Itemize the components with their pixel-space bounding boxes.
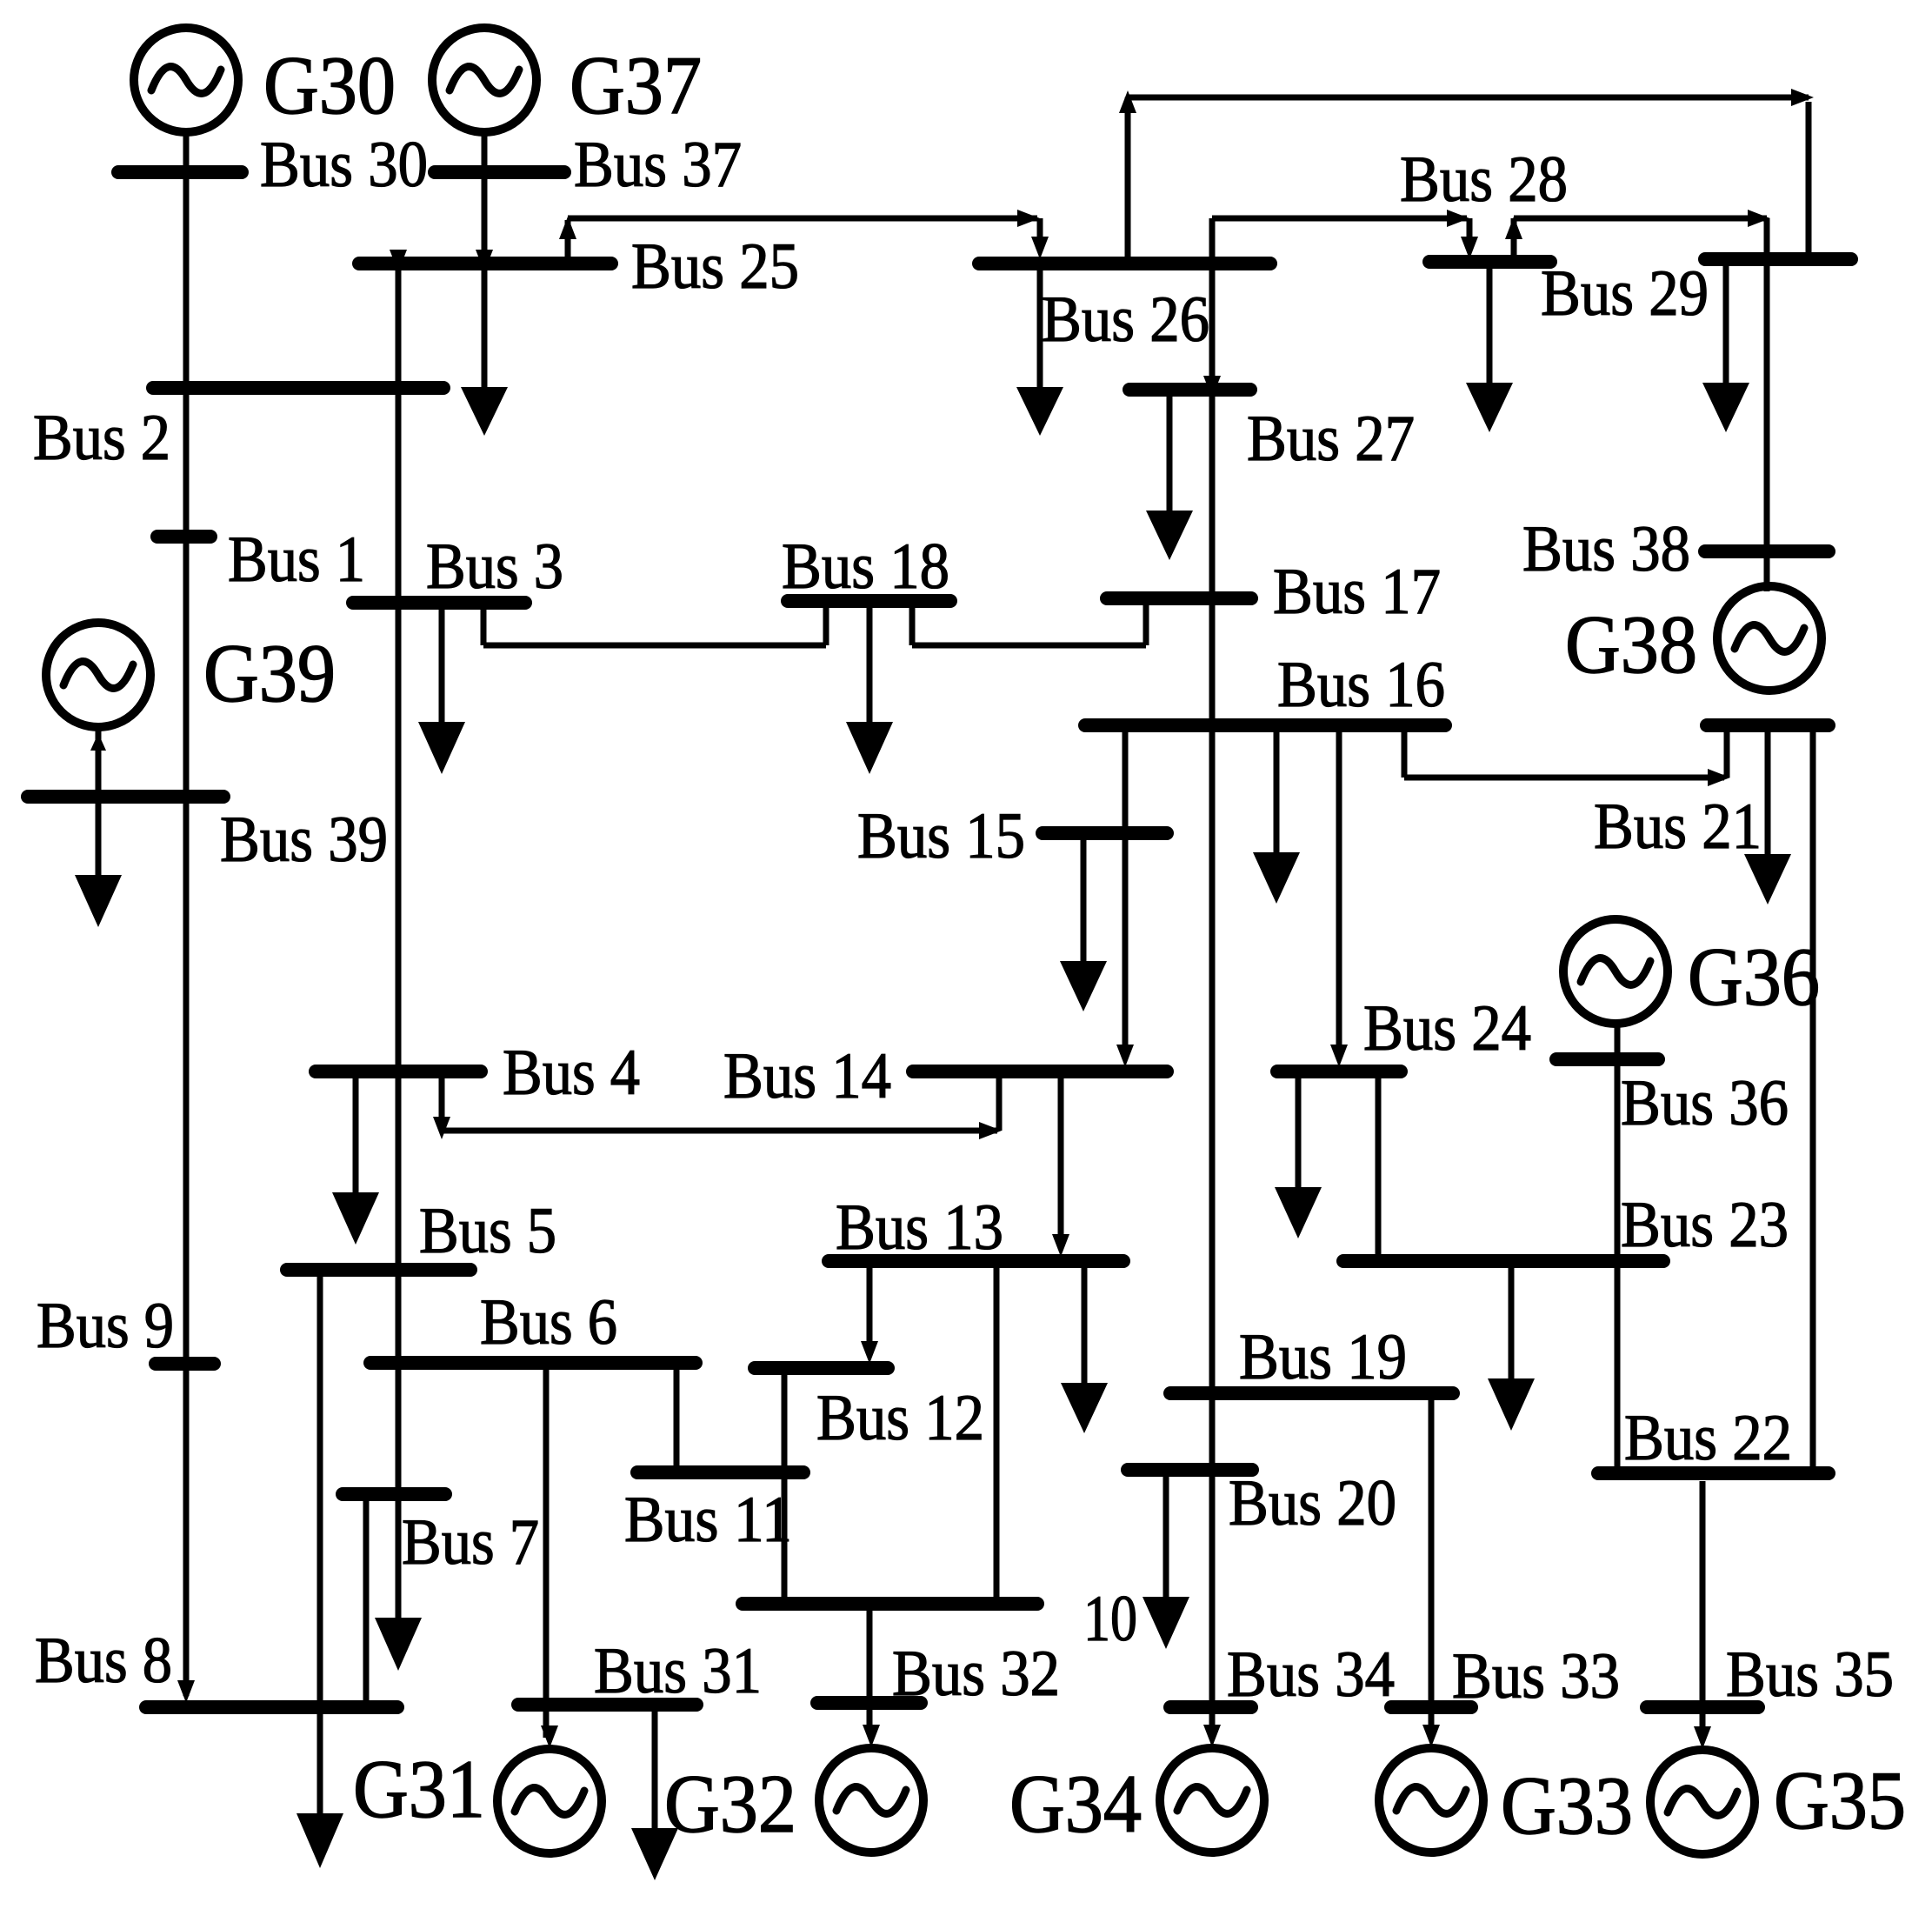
bus bar Bus 2	[153, 381, 443, 395]
bus bar Bus 34	[1170, 1700, 1251, 1714]
bus bar Bus 5	[287, 1263, 470, 1277]
wire G30 to Bus 30 to Bus 2 to Bus 1 to Bus 39 to Bus 9 to Bus 8 (lines 2-30, 1-2, 1-39, 9-39, 8-9)	[183, 134, 190, 1696]
load arrow at Bus 25	[461, 387, 508, 436]
bus bar Bus 11	[637, 1465, 803, 1479]
svg-text:Bus 21: Bus 21	[1594, 791, 1762, 863]
svg-text:G31: G31	[353, 1743, 485, 1835]
svg-text:G36: G36	[1688, 931, 1820, 1023]
bus bar Bus 10	[743, 1597, 1037, 1611]
bus bar Bus 22	[1598, 1466, 1829, 1480]
load arrow at Bus 26	[1016, 270, 1063, 436]
svg-text:G39: G39	[203, 627, 336, 719]
generator G33 symbol	[1379, 1748, 1483, 1852]
svg-text:Bus 37: Bus 37	[574, 129, 742, 201]
bus bar Bus 29	[1705, 252, 1851, 266]
wire Bus 12 to Bus 11 (transformer 12-11)	[782, 1375, 788, 1466]
svg-text:Bus 29: Bus 29	[1541, 257, 1709, 330]
bus bar Bus 21	[1707, 718, 1829, 732]
wire line 25-26 corner down to Bus 28... stub onto Bus 28 bar	[1467, 218, 1473, 242]
svg-text:Bus 32: Bus 32	[892, 1638, 1060, 1710]
wire Bus 10 to Bus 32 to G32 (transformer 10-32)	[867, 1610, 873, 1731]
svg-text:Bus 14: Bus 14	[723, 1040, 891, 1112]
wire Bus 4 corner down to line 4-14	[439, 1078, 445, 1128]
bus bar Bus 27	[1129, 383, 1250, 397]
svg-text:10: 10	[1083, 1583, 1137, 1655]
arrowhead line 16-21 right at Bus 21 bend	[1708, 769, 1730, 786]
wire line 28-29 horizontal	[1514, 216, 1767, 222]
svg-text:Bus 16: Bus 16	[1277, 649, 1445, 721]
generator G30 symbol	[134, 28, 238, 132]
bus bar Bus 8	[146, 1700, 397, 1714]
wire Bus 18 stub up from line 3-18	[823, 607, 829, 645]
wire line 17-18 horizontal	[912, 643, 1146, 649]
bus bar Bus 23	[1343, 1254, 1663, 1268]
arrowhead onto G34 circle top	[1203, 1725, 1221, 1747]
wire line 26-28 horizontal	[1212, 216, 1467, 222]
svg-text:Bus 39: Bus 39	[220, 804, 388, 876]
load arrow at Bus 7	[375, 1618, 422, 1671]
svg-text:G32: G32	[664, 1758, 796, 1850]
wire Bus 21 stub down to line 16-21	[1724, 732, 1730, 778]
load arrow at Bus 39	[75, 803, 122, 927]
wire Bus 6 to Bus 11 (line 6-11)	[674, 1370, 680, 1466]
wire Bus 28 stub up to line 28-29	[1511, 218, 1517, 256]
svg-text:Bus 23: Bus 23	[1621, 1189, 1789, 1261]
load arrow at Bus 20	[1143, 1476, 1189, 1649]
svg-text:Bus 9: Bus 9	[37, 1290, 174, 1362]
generator G34 symbol	[1160, 1748, 1264, 1852]
bus bar Bus 4	[316, 1065, 481, 1078]
generator G37 symbol	[432, 28, 536, 132]
svg-text:Bus 28: Bus 28	[1400, 144, 1568, 216]
load arrow at Bus 8	[296, 1813, 343, 1868]
svg-text:Bus 33: Bus 33	[1452, 1640, 1620, 1712]
arrowhead onto G31 circle top	[541, 1725, 558, 1748]
wire Bus 17 stub up from line 17-18	[1143, 604, 1149, 645]
arrowhead line 25-26 right at end	[1017, 210, 1040, 227]
wire G36 to Bus 36 to Bus 23 to Bus 22 (transformer 23-36, line 22-23)	[1615, 1025, 1621, 1466]
bus bar Bus 16	[1085, 718, 1445, 732]
arrowhead junction line at Bus 27 bar	[1203, 376, 1221, 398]
svg-text:G38: G38	[1565, 598, 1697, 691]
wire line 25-26 horizontal	[568, 216, 1037, 222]
arrowhead line 26-28 right at end	[1447, 210, 1469, 227]
svg-text:Bus 24: Bus 24	[1363, 992, 1531, 1065]
generator G35 symbol	[1650, 1750, 1755, 1854]
bus bar Bus 19	[1170, 1386, 1453, 1400]
wire Bus 16 to Bus 15 (line 15-16)	[1123, 732, 1129, 827]
wire Bus 14 to Bus 13 (line 13-14)	[1058, 1078, 1064, 1239]
bus bar Bus 25	[359, 257, 611, 270]
bus bar Bus 7	[343, 1487, 445, 1501]
load arrow at Bus 16	[1253, 732, 1300, 904]
svg-text:Bus 1: Bus 1	[228, 524, 365, 596]
bus bar Bus 33	[1391, 1700, 1471, 1714]
bus bar Bus 3	[353, 596, 525, 610]
wire Bus 24 to Bus 23 (line 23-24)	[1376, 1078, 1382, 1255]
arrowhead line 15-14 onto Bus 14 bar	[1116, 1045, 1134, 1067]
load arrow at Bus 29	[1702, 266, 1749, 432]
wire G37 to Bus 37 to Bus 25 (transformer 25-37) and Bus 25 load stub	[482, 134, 488, 389]
load arrow at Bus 18	[846, 607, 893, 774]
svg-text:Bus 8: Bus 8	[35, 1625, 172, 1697]
wire Bus 16 stub down to line 16-21	[1402, 732, 1408, 778]
arrowhead junction line at Bus 25 bar	[390, 250, 407, 272]
generator G39 symbol	[46, 623, 150, 727]
svg-text:Bus 35: Bus 35	[1726, 1639, 1894, 1711]
arrowhead line 28-29 right at Bus 29 bend	[1748, 210, 1770, 227]
wire Bus 26 to Bus 27 to Bus 17 to Bus 16 to Bus 19 to Bus 20 (lines 26-27, 17-27, 16-17, 16-19, 19-20)	[1209, 218, 1216, 1464]
arrowhead G37 line at Bus 25 bar	[476, 250, 493, 272]
svg-text:Bus 25: Bus 25	[631, 230, 799, 303]
wire Bus 7 to Bus 8 (line 7-8)	[363, 1501, 370, 1701]
arrowhead line 4-14 right at Bus 14 stub	[979, 1122, 1002, 1139]
svg-text:G30: G30	[263, 39, 396, 131]
generator G38 symbol	[1717, 586, 1822, 691]
load arrow at Bus 4	[332, 1078, 379, 1245]
arrowhead line 2-30 end onto Bus 8 bar	[177, 1680, 195, 1703]
wire line 26-29 corner down to Bus 29	[1806, 102, 1812, 253]
bus bar Bus 6	[370, 1356, 696, 1370]
wire Bus 11 to Bus 10 (line 10-11)	[782, 1478, 788, 1598]
arrowhead line 25-26 up at Bus 25 bend	[559, 217, 576, 239]
wire Bus 22 to Bus 35 to G35 (transformer 22-35)	[1700, 1481, 1706, 1732]
svg-text:Bus 19: Bus 19	[1239, 1321, 1407, 1393]
wire line 25-26 right end down to Bus 26 bar	[1037, 218, 1043, 242]
wire Bus 13 to Bus 10 (line 10-13)	[994, 1267, 1000, 1598]
bus bar Bus 9	[156, 1357, 214, 1371]
bus bar Bus 1	[157, 530, 210, 544]
wire Bus 20 to Bus 34 to G34 (transformer 20-34)	[1209, 1476, 1216, 1731]
svg-text:Bus 27: Bus 27	[1247, 403, 1415, 475]
bus bar Bus 14	[913, 1065, 1167, 1078]
arrowhead line 26-28 onto Bus 28 bar	[1461, 237, 1478, 259]
wire line 4-14 horizontal	[442, 1128, 997, 1134]
load arrow at Bus 21	[1744, 732, 1791, 904]
wire Bus 25 to Bus 2 to Bus 3 to Bus 4 to Bus 5 to Bus 6 to Bus 7 (lines 2-25, 2-3, 3-4, 4-5, 5-6, 6-7) and Bus 7 load stub	[396, 270, 402, 1621]
bus bar Bus 38	[1705, 544, 1829, 558]
load arrow at Bus 27	[1146, 397, 1193, 560]
svg-text:Bus 15: Bus 15	[857, 800, 1025, 872]
wire Bus 15 to Bus 14 (line 14-15)	[1123, 839, 1129, 1050]
bus bar Bus 35	[1647, 1700, 1758, 1714]
svg-text:Bus 5: Bus 5	[419, 1195, 556, 1267]
wire Bus 16 to Bus 24 (line 16-24)	[1336, 732, 1342, 1050]
load arrow at Bus 28	[1466, 269, 1513, 432]
wire G39 to Bus 39	[96, 725, 102, 791]
arrowhead line 13-12 onto Bus 12 bar	[861, 1341, 878, 1364]
bus bar Bus 32	[817, 1696, 921, 1710]
bus bar Bus 12	[755, 1361, 888, 1375]
bus bar Bus 18	[788, 594, 950, 608]
svg-text:G34: G34	[1009, 1758, 1142, 1850]
svg-text:G37: G37	[570, 39, 702, 131]
svg-text:Bus 3: Bus 3	[426, 531, 563, 603]
svg-text:G35: G35	[1774, 1754, 1906, 1846]
wire line 16-21 horizontal	[1404, 775, 1724, 781]
svg-text:Bus 22: Bus 22	[1624, 1402, 1792, 1474]
wire Bus 19 to Bus 33 to G33 (transformer 19-33)	[1429, 1400, 1435, 1731]
wire Bus 3 stub down to line 3-18	[481, 609, 487, 645]
generator G36 symbol	[1563, 919, 1668, 1024]
bus bar Bus 30	[118, 165, 242, 179]
load arrow at Bus 31	[631, 1712, 678, 1880]
arrowhead line 26-29 up at Bus 26 bend	[1119, 90, 1136, 113]
bus bar Bus 31	[518, 1698, 696, 1712]
load arrow at Bus 13	[1061, 1267, 1108, 1433]
load arrow at Bus 24	[1275, 1078, 1322, 1238]
svg-text:Bus 12: Bus 12	[816, 1382, 984, 1454]
svg-text:Bus 18: Bus 18	[782, 531, 949, 603]
bus bar Bus 36	[1556, 1052, 1658, 1066]
svg-text:Bus 20: Bus 20	[1229, 1467, 1396, 1539]
svg-text:Bus 7: Bus 7	[402, 1506, 539, 1579]
wire Bus 13 to Bus 12 (transformer 12-13)	[867, 1267, 873, 1346]
svg-text:Bus 4: Bus 4	[503, 1037, 640, 1109]
bus bar Bus 17	[1107, 591, 1251, 605]
svg-text:Bus 13: Bus 13	[836, 1191, 1003, 1264]
wire Bus 25 stub up to line 25-26	[565, 220, 571, 257]
wire line 3-18 horizontal	[483, 643, 826, 649]
load arrow at Bus 23	[1488, 1268, 1535, 1431]
svg-text:G33: G33	[1501, 1759, 1633, 1852]
bus bar Bus 28	[1429, 255, 1550, 269]
generator G31 symbol	[497, 1749, 602, 1853]
arrowhead onto G39 circle bottom	[90, 733, 106, 751]
svg-text:Bus 38: Bus 38	[1522, 513, 1690, 585]
load arrow at Bus 15	[1060, 839, 1107, 1011]
wire Bus 21 to Bus 22 (line 21-22)	[1810, 732, 1816, 1466]
arrowhead onto G33 circle top	[1422, 1725, 1440, 1747]
wire line 26-29 horizontal	[1128, 95, 1809, 101]
bus bar Bus 37	[435, 165, 564, 179]
arrowhead line 4-14 down at Bus 4 bend	[433, 1117, 450, 1139]
bus bar Bus 15	[1043, 826, 1167, 840]
svg-text:Bus 6: Bus 6	[480, 1286, 617, 1358]
arrowhead line 25-26 onto Bus 26 bar	[1031, 237, 1049, 259]
load arrow at Bus 3	[418, 609, 465, 774]
bus bar Bus 20	[1128, 1463, 1252, 1477]
svg-text:Bus 11: Bus 11	[624, 1484, 792, 1556]
wire line 28-29 corner down to Bus 29, Bus 29 to Bus 38 to G38 (transformer 29-38)	[1764, 218, 1770, 591]
arrowhead onto G35 circle top	[1694, 1726, 1711, 1749]
arrowhead line 16-24 onto Bus 24 bar	[1330, 1045, 1348, 1067]
svg-text:Bus 36: Bus 36	[1621, 1067, 1789, 1139]
wire Bus 14 stub to line 4-14	[996, 1078, 1003, 1131]
bus bar Bus 39	[28, 790, 223, 804]
bus bar Bus 13	[829, 1254, 1123, 1268]
wire Bus 5 to Bus 8 (line 5-8) and Bus 8 load stub	[317, 1277, 323, 1816]
svg-text:Bus 26: Bus 26	[1042, 284, 1209, 356]
svg-text:Bus 34: Bus 34	[1227, 1639, 1395, 1711]
wire Bus 6 to Bus 31 to G31 (transformer 6-31)	[543, 1370, 550, 1738]
arrowhead onto G32 circle top	[863, 1725, 880, 1747]
svg-text:Bus 17: Bus 17	[1273, 556, 1441, 628]
arrowhead line 14-13 onto Bus 13 bar	[1052, 1234, 1069, 1257]
svg-text:Bus 31: Bus 31	[594, 1635, 762, 1707]
bus bar Bus 24	[1277, 1065, 1401, 1078]
bus bar Bus 26	[979, 257, 1270, 270]
svg-text:Bus 30: Bus 30	[260, 129, 428, 201]
svg-text:Bus 2: Bus 2	[33, 402, 170, 474]
generator G32 symbol	[819, 1748, 923, 1852]
arrowhead line 28-29 up at Bus 28 bend	[1505, 217, 1522, 239]
arrowhead line 26-29 right at Bus 29 bend	[1791, 89, 1814, 106]
wire Bus 18 stub down to line 17-18	[909, 607, 916, 645]
wire Bus 26 stub up to line 26-29	[1125, 97, 1131, 257]
